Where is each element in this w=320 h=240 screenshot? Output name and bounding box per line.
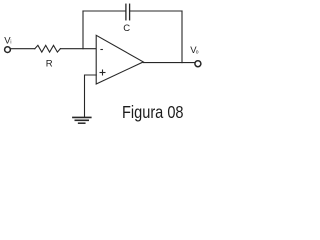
svg-text:i: i [10, 40, 11, 46]
resistor R [35, 45, 61, 52]
input terminal Vi [5, 47, 11, 53]
wire input to resistor [11, 48, 35, 50]
svg-text:C: C [123, 23, 130, 34]
wire feedback top right [130, 10, 182, 12]
output terminal Vo [195, 61, 201, 67]
ground [73, 116, 91, 118]
wire output [143, 62, 194, 64]
svg-text:R: R [46, 59, 53, 70]
op-amp plus input label [100, 70, 106, 76]
svg-text:Figura 08: Figura 08 [122, 103, 184, 123]
svg-text:o: o [196, 50, 199, 56]
wire resistor to inverting input [60, 48, 96, 50]
wire feedback up [82, 11, 84, 49]
wire non-inverting input [85, 75, 97, 117]
op-amp minus input label [100, 49, 103, 51]
capacitor C [125, 4, 127, 20]
wire feedback top left [83, 10, 125, 12]
op-amp U1 [96, 35, 143, 84]
wire feedback down [181, 11, 183, 63]
